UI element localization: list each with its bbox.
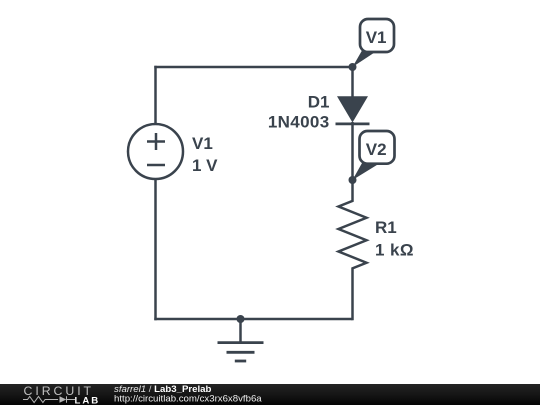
svg-text:V1: V1 — [192, 134, 213, 153]
svg-text:V2: V2 — [366, 140, 387, 159]
svg-text:LAB: LAB — [75, 395, 101, 405]
svg-text:http://circuitlab.com/cx3rx6x8: http://circuitlab.com/cx3rx6x8vfb6a — [114, 394, 262, 405]
svg-text:D1: D1 — [308, 92, 330, 111]
svg-text:1 kΩ: 1 kΩ — [375, 241, 414, 260]
svg-text:V1: V1 — [366, 28, 387, 47]
svg-text:1N4003: 1N4003 — [268, 112, 330, 131]
svg-text:R1: R1 — [375, 218, 397, 237]
svg-text:1 V: 1 V — [192, 156, 218, 175]
